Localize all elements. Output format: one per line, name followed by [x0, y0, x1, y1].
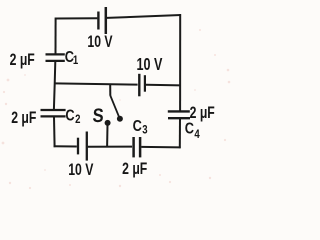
svg-text:2 μF: 2 μF — [122, 160, 147, 178]
svg-text:10 V: 10 V — [87, 33, 112, 51]
svg-text:2 μF: 2 μF — [11, 109, 36, 127]
svg-text:10 V: 10 V — [137, 55, 163, 75]
svg-text:10 V: 10 V — [68, 161, 93, 179]
svg-text:2 μF: 2 μF — [10, 51, 35, 69]
svg-text:S: S — [92, 105, 104, 127]
